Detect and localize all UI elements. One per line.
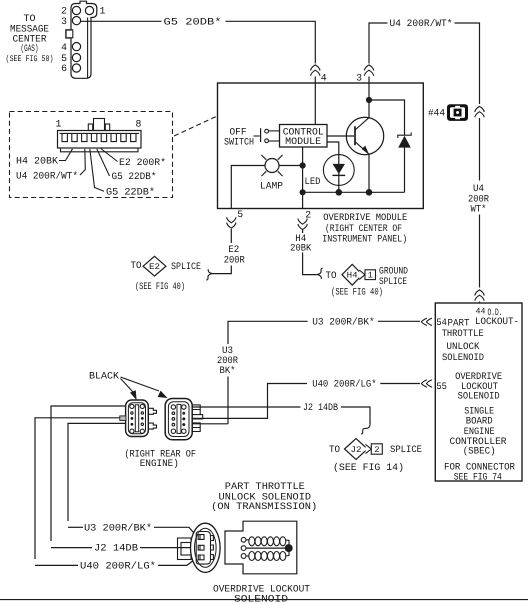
wire U3 200R/BK* bottom corner	[68, 526, 83, 528]
wire U4 200R/WT* from transistor collector (top)	[368, 77, 370, 85]
continuation hook J2	[361, 423, 370, 435]
pin 6	[72, 64, 80, 72]
wire U3 vertical (lower segment)	[227, 377, 229, 424]
wire H4 20BK to splice hook	[303, 253, 317, 275]
pin 3	[72, 17, 80, 25]
in-line connector break pin 5	[227, 217, 236, 228]
junction dot solenoid common	[285, 544, 293, 552]
dashed leader to module	[174, 116, 217, 136]
pin 2	[72, 6, 80, 14]
svg-text:MODULE: MODULE	[285, 136, 321, 147]
svg-text:TO: TO	[329, 444, 340, 455]
continuation hook H4	[317, 268, 323, 279]
svg-text:LAMP: LAMP	[260, 180, 283, 191]
wire label U3 200R BK* (vertical stack)	[217, 345, 238, 376]
svg-text:SOLENOID: SOLENOID	[442, 352, 484, 363]
svg-text:(SEE FIG 40): (SEE FIG 40)	[135, 281, 185, 292]
svg-text:4: 4	[61, 42, 67, 53]
svg-text:2: 2	[374, 445, 379, 455]
zener diode D2	[398, 132, 411, 192]
wire lamp to pin 5	[231, 166, 265, 209]
splice symbol H4 ground	[342, 264, 376, 285]
wire G5 20DB* (right segment)	[226, 21, 316, 63]
wire control module bottom to lamp node	[302, 147, 304, 166]
svg-text:PART: PART	[448, 318, 470, 329]
connector C1 inner tail line	[87, 18, 89, 79]
label (RIGHT REAR OF ENGINE)	[124, 448, 196, 468]
wire J2 14DB from connector	[186, 406, 301, 408]
pin 1	[85, 6, 93, 14]
continuation hook E2	[206, 269, 212, 280]
wire U40 (right segment)	[380, 383, 420, 385]
svg-text:G5 20DB*: G5 20DB*	[164, 16, 222, 27]
svg-text:SPLICE: SPLICE	[379, 276, 407, 287]
wire lamp to junction	[279, 165, 303, 167]
svg-text:SOLENOID: SOLENOID	[458, 391, 500, 402]
svg-text:TO: TO	[326, 270, 337, 281]
svg-text:J2 14DB: J2 14DB	[94, 543, 138, 554]
svg-text:BK*: BK*	[220, 365, 236, 376]
connector C2 bottom lip	[61, 148, 139, 152]
wire U40 to connector pin C	[158, 558, 197, 566]
connector C3 pins	[130, 404, 145, 433]
wire U3 vertical upper + horizontal	[228, 321, 308, 344]
svg-text:44: 44	[476, 306, 486, 316]
wire switch to control module (top)	[269, 130, 280, 132]
connector C3 terminal tab (U40 row)	[120, 416, 126, 421]
solenoid pin bottom	[241, 554, 246, 559]
in-line connector break on right bus (at SBEC)	[475, 290, 484, 301]
in-line connector break on G5 wire	[311, 65, 320, 76]
svg-text:LOCKOUT-: LOCKOUT-	[475, 316, 519, 327]
label TO MESSAGE CENTER (GAS) (SEE FIG 50)	[6, 13, 54, 64]
SECTION: middle wires and engine connectors	[35, 316, 422, 559]
junction dot rail at pin2	[300, 189, 306, 195]
connector C1 body (to message center)	[66, 1, 97, 78]
wire control module to LED anode	[327, 142, 339, 155]
svg-text:SWITCH: SWITCH	[224, 136, 254, 147]
svg-text:SPLICE: SPLICE	[390, 444, 422, 455]
terminal comb line	[60, 132, 140, 134]
svg-text:4: 4	[321, 73, 327, 84]
svg-text:ENGINE): ENGINE)	[140, 458, 179, 469]
svg-text:1: 1	[368, 271, 373, 281]
pin 5	[72, 54, 80, 62]
svg-text:20BK: 20BK	[290, 242, 311, 253]
solenoid box (overdrive lockout solenoid)	[225, 521, 297, 574]
coil L2 (part throttle unlock)	[246, 537, 289, 556]
svg-text:(SEE FIG 14): (SEE FIG 14)	[333, 462, 404, 473]
svg-text:(SEE FIG 50): (SEE FIG 50)	[6, 54, 54, 64]
SBEC box	[435, 303, 522, 481]
wire right bus mid segment	[479, 118, 481, 181]
svg-text:SEE FIG 74: SEE FIG 74	[454, 471, 502, 482]
svg-text:G5 22DB*: G5 22DB*	[112, 171, 157, 182]
label PART THROTTLE UNLOCK SOLENOID (ON TRANSMISSION)	[211, 481, 317, 512]
wire E2 200R to splice hook	[213, 266, 232, 274]
svg-text:(GAS): (GAS)	[21, 43, 39, 54]
lamp L1	[261, 155, 282, 176]
SECTION: dashed box with 8-pin connector	[10, 112, 218, 198]
svg-text:(RIGHT CENTER OF: (RIGHT CENTER OF	[325, 223, 402, 234]
svg-text:J2 14DB: J2 14DB	[303, 402, 338, 413]
svg-text:#44: #44	[428, 108, 445, 119]
wire collector node to transistor	[368, 84, 370, 118]
connector C4 pins	[171, 405, 186, 434]
label OVERDRIVE / 55 LOCKOUT / SOLENOID	[436, 371, 502, 402]
svg-text:1: 1	[100, 6, 106, 17]
label FOR CONNECTOR SEE FIG 74	[444, 461, 515, 482]
overdrive module box	[218, 83, 424, 209]
svg-text:G5 22DB*: G5 22DB*	[106, 187, 155, 198]
wire J2 14DB bottom corner	[51, 547, 92, 549]
wire U3 (right segment)	[378, 320, 420, 322]
wire emitter to bottom rail	[368, 154, 370, 192]
label THROTTLE UNLOCK SOLENOID	[442, 328, 484, 363]
wire J2 to connector pin B	[140, 547, 196, 549]
svg-text:E2: E2	[149, 262, 160, 272]
wire U4 (right segment) to right bus	[455, 23, 480, 104]
wire J2 into left connector	[51, 406, 126, 541]
label SINGLE BOARD ENGINE CONTROLLER (SBEC)	[450, 405, 507, 456]
in-line connector break pin 2	[298, 219, 307, 230]
wire U3 200R/BK* from connector C4	[186, 423, 228, 425]
wire switch to control module (bottom)	[269, 140, 280, 142]
svg-text:U4 200R/WT*: U4 200R/WT*	[16, 171, 78, 182]
wire E2 200R below break	[230, 229, 232, 243]
label GROUND SPLICE	[379, 266, 408, 288]
transistor Q1	[346, 117, 383, 154]
svg-text:H4: H4	[347, 271, 358, 281]
svg-text:200R: 200R	[224, 254, 245, 265]
wire collector node to zener	[369, 100, 405, 135]
connector C5 oval (part throttle unlock solenoid connector)	[191, 523, 221, 572]
leader U4	[80, 149, 85, 175]
svg-text:UNLOCK: UNLOCK	[447, 341, 480, 352]
label E2 / 200R	[224, 244, 245, 265]
svg-text:8: 8	[136, 119, 142, 130]
SECTION: right-side U4 wire and SBEC	[356, 18, 522, 483]
svg-text:TO: TO	[24, 13, 36, 24]
svg-text:U3 200R/BK*: U3 200R/BK*	[312, 316, 375, 327]
svg-text:E2 200R*: E2 200R*	[119, 157, 166, 168]
connector C1 cavity tab	[66, 30, 73, 38]
svg-text:3: 3	[356, 73, 362, 84]
svg-text:6: 6	[61, 63, 67, 74]
svg-text:BLACK: BLACK	[89, 371, 119, 382]
page border line bottom	[0, 599, 528, 601]
label OFF SWITCH	[224, 127, 254, 148]
junction dot rail at emitter	[366, 189, 373, 196]
wire junction down to bottom rail	[302, 166, 304, 209]
wire label U4 200R WT* (vertical stack)	[468, 183, 489, 214]
junction dot rail at LED	[336, 189, 343, 196]
wire control module to transistor base	[327, 135, 354, 137]
connector C4 (right, black) body	[165, 399, 192, 440]
svg-text:5: 5	[61, 53, 67, 64]
svg-text:2: 2	[305, 209, 311, 220]
connector C2 body (8-way)	[58, 131, 142, 149]
svg-text:5: 5	[237, 209, 243, 220]
svg-text:U4 200R/WT*: U4 200R/WT*	[390, 18, 453, 29]
svg-text:U3 200R/BK*: U3 200R/BK*	[84, 522, 152, 533]
svg-text:(ON TRANSMISSION): (ON TRANSMISSION)	[211, 501, 317, 512]
SECTION: overdrive module	[131, 83, 424, 298]
wire U40 200R/LG* bottom corner	[35, 564, 78, 566]
svg-text:(SEE FIG 40): (SEE FIG 40)	[331, 287, 383, 298]
svg-text:SPLICE: SPLICE	[171, 261, 201, 272]
svg-text:3: 3	[61, 16, 67, 27]
wire solenoid common	[246, 547, 288, 549]
svg-text:LED: LED	[305, 176, 321, 187]
leader BLACK to left connector	[121, 379, 137, 401]
leader H4	[59, 149, 73, 161]
connector C4 right lock tabs	[192, 405, 203, 432]
wire H4 20BK below break	[302, 230, 304, 233]
svg-text:INSTRUMENT PANEL): INSTRUMENT PANEL)	[322, 233, 407, 244]
connector C3 (left, black) body	[126, 400, 149, 437]
junction dot lamp node	[300, 162, 306, 168]
connector C5 pin sockets A B C	[198, 535, 204, 560]
solenoid pin top	[241, 537, 246, 542]
svg-text:OVERDRIVE MODULE: OVERDRIVE MODULE	[323, 212, 407, 223]
coil L3 (overdrive lockout)	[246, 552, 286, 561]
splice symbol E2	[143, 256, 166, 276]
svg-text:U40 200R/LG*: U40 200R/LG*	[312, 379, 377, 390]
wire into SBEC pin 44	[479, 302, 481, 304]
wire U4 up and right (left segment)	[369, 23, 388, 64]
label OVERDRIVE LOCKOUT SOLENOID	[213, 584, 310, 604]
svg-text:(SBEC): (SBEC)	[463, 446, 496, 457]
wire G5 into module pin 4	[314, 77, 316, 125]
svg-text:1: 1	[56, 119, 62, 130]
svg-text:GROUND: GROUND	[379, 266, 408, 277]
solenoid pin middle	[241, 546, 246, 551]
wire G5 20DB* from pin 3 (left segment)	[81, 20, 162, 22]
wire U40 200R/LG* to SBEC pin 55 (corner)	[186, 384, 307, 419]
svg-text:WT*: WT*	[471, 203, 487, 214]
pin 4	[72, 43, 80, 51]
leader E2	[101, 149, 118, 162]
connector C2 top lock tab	[94, 119, 105, 131]
connector C5 mating bracket	[178, 538, 192, 560]
leader G5 (lower)	[90, 149, 104, 192]
wire U3 into left connector	[68, 423, 126, 521]
svg-text:H4 20BK: H4 20BK	[16, 156, 58, 167]
SECTION: top-left message center connector	[6, 1, 327, 125]
grommet symbol #44	[447, 104, 468, 121]
label H4 / 20BK	[290, 233, 311, 253]
label OVERDRIVE MODULE location	[322, 212, 407, 244]
in-line connector arrows pin 54	[422, 318, 432, 325]
terminal slots 1-8	[62, 133, 136, 141]
control module U1 box	[280, 125, 328, 148]
LED D1	[323, 155, 354, 193]
wire U3 to connector pin A	[154, 527, 197, 536]
switch S1	[254, 128, 269, 143]
leader G5 (upper)	[97, 149, 110, 176]
svg-text:J2: J2	[351, 445, 362, 455]
bottom rail wire	[303, 191, 405, 193]
connector C2 right lock wing	[105, 124, 109, 131]
wire U40 into left connector	[35, 418, 120, 559]
connector C2 left lock wing	[88, 124, 92, 131]
wire right bus lower segment	[479, 215, 481, 288]
wire J2 to splice (corner down)	[341, 407, 370, 424]
in-line connector arrows pin 55	[422, 380, 432, 387]
svg-text:TO: TO	[131, 260, 142, 271]
svg-text:54: 54	[436, 317, 447, 328]
connector C3 right lock tabs	[149, 408, 157, 429]
label CONTROL MODULE	[283, 127, 324, 147]
dashed detail box	[10, 112, 173, 198]
svg-text:U40 200R/LG*: U40 200R/LG*	[80, 560, 156, 571]
SECTION: bottom solenoid	[0, 481, 528, 604]
junction dot collector node	[366, 97, 372, 103]
svg-text:THROTTLE: THROTTLE	[442, 328, 484, 339]
in-line connector break pin 3	[364, 65, 373, 76]
svg-text:SOLENOID: SOLENOID	[234, 594, 288, 604]
leader BLACK to right connector	[121, 377, 168, 398]
splice symbol J2	[345, 439, 383, 460]
in-line connector break on right bus (upper)	[475, 106, 484, 117]
svg-text:55: 55	[436, 381, 447, 392]
